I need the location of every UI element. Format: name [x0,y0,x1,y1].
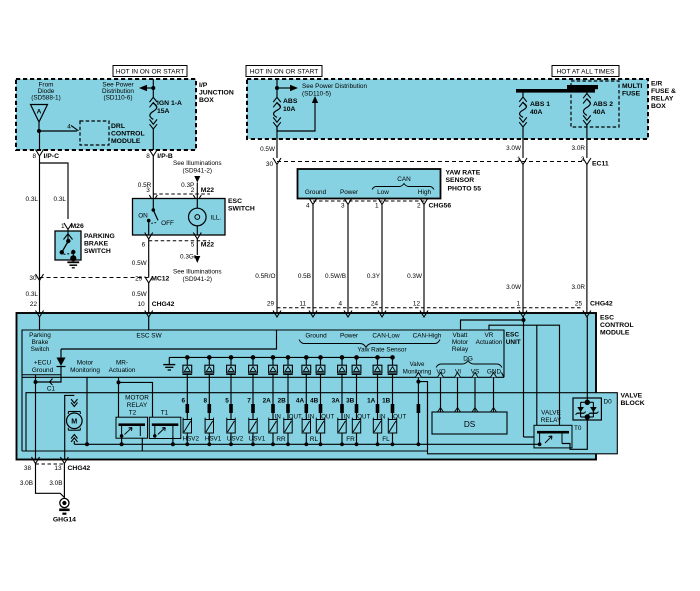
wire I/P-B to ESC switch [152,156,154,199]
relay T1 box [149,417,181,438]
fuse ABS 1 40A [522,93,524,98]
D0 inner loop [581,401,594,403]
svg-text:+ECU: +ECU [34,360,52,367]
svg-text:8: 8 [146,153,150,160]
valve bus junction 8 [207,442,211,446]
module pin 38 [32,457,40,464]
wire valve 4A to bus [305,433,307,444]
wire MR actuation [118,377,120,382]
svg-text:SWITCH: SWITCH [84,248,111,255]
svg-text:HOT IN ON OR START: HOT IN ON OR START [116,68,185,75]
bus bar 2 [567,85,598,89]
valve terminal bar 2A [271,404,275,413]
wire pin29 internal [61,330,277,349]
svg-text:Motor: Motor [77,360,94,367]
svg-text:(SD941-2): (SD941-2) [183,276,212,283]
svg-text:25: 25 [575,301,583,308]
dashed connector line CHG56 [313,200,426,202]
wire node to power dist arrow [277,87,290,89]
svg-text:3.0W: 3.0W [506,145,522,152]
svg-text:I/P: I/P [199,82,208,89]
valve terminal bar 5 [229,404,233,413]
svg-text:DRL: DRL [111,123,125,130]
svg-text:ABS 2: ABS 2 [593,101,613,108]
svg-text:1: 1 [516,301,520,308]
svg-text:CAN-High: CAN-High [413,333,442,340]
svg-text:I/P-C: I/P-C [44,153,60,160]
dashed connector line CHG42 bottom [36,463,65,465]
svg-text:PARKING: PARKING [84,233,115,240]
solenoid valve 2B [284,420,292,434]
svg-text:OUT: OUT [321,414,334,421]
wire valve 2A to bus [272,433,274,444]
svg-text:DG: DG [463,356,473,363]
dashed connector line M22 top [153,193,210,195]
DRL control module (dashed box) [80,121,109,145]
valve relay contact [537,431,569,434]
internal ground symbol [168,357,170,364]
wire ESC pin6 to MC12 [148,239,150,278]
dashed connector line CHG42 top [277,307,583,309]
valve terminal bar 1B [391,404,395,413]
ground GHG14 [60,498,69,507]
svg-text:SENSOR: SENSOR [446,177,475,184]
svg-text:ESC: ESC [506,332,520,339]
svg-text:3A: 3A [332,398,341,405]
DS box [432,412,507,434]
wire T1 coil to bus [172,436,174,444]
svg-text:FL: FL [382,436,390,443]
svg-text:1A: 1A [367,398,376,405]
svg-text:MODULE: MODULE [111,138,141,145]
svg-text:15A: 15A [157,108,170,115]
yaw rate sensor box [298,169,441,199]
relay T1 contact [152,423,179,426]
valve monitoring bus junction [417,442,421,446]
svg-text:BLOCK: BLOCK [621,400,645,407]
valve bus junction 6 [185,442,189,446]
svg-text:See Illuminations: See Illuminations [173,269,222,276]
strip pin notches [415,373,421,378]
svg-text:3.0B: 3.0B [20,480,33,487]
svg-text:0.5W/B: 0.5W/B [325,273,346,280]
svg-text:GHG14: GHG14 [53,517,76,524]
svg-text:CONTROL: CONTROL [111,131,145,138]
svg-text:USV1: USV1 [249,436,266,443]
svg-text:29: 29 [135,276,143,283]
svg-text:A: A [37,109,42,116]
wire valve 3B to bus [356,433,358,444]
svg-text:ABS: ABS [283,98,298,105]
svg-text:Ground: Ground [305,189,327,196]
wire valve column 7 [252,393,254,420]
ESC switch box [133,199,226,236]
valve bus junction 2A [271,442,275,446]
wire Vbatt to strip [461,320,524,330]
svg-text:See Power Distribution: See Power Distribution [302,83,367,90]
svg-text:HSV2: HSV2 [183,436,200,443]
svg-text:IN: IN [379,414,385,421]
valve bus junction 4B [319,442,323,446]
solenoid valve 6 [183,420,191,434]
svg-text:2: 2 [191,187,195,194]
wire valve column 4B [320,393,322,420]
svg-text:OFF: OFF [161,220,174,227]
wire feed from label [152,79,154,88]
wire yaw power to pin 4 [347,205,349,331]
svg-text:2B: 2B [278,398,287,405]
wire Vbatt to valve relay [524,436,535,438]
module pin 13 CHG42 [60,457,68,464]
wire valve 5 to bus [230,433,232,444]
valve bus junction 1B [391,442,395,446]
svg-text:PHOTO 55: PHOTO 55 [448,186,482,193]
connector pin 8 I/P-C [36,150,44,157]
ESC unit outline [22,330,504,451]
svg-text:0.3W: 0.3W [407,273,423,280]
svg-text:Switch: Switch [31,346,50,353]
solenoid valve 8 [205,420,213,434]
node junction (IGN feed) [151,86,155,90]
svg-text:(SD110-6): (SD110-6) [103,95,132,102]
svg-text:USV2: USV2 [227,436,244,443]
solenoid valve 3A [338,420,346,434]
svg-text:HOT AT ALL TIMES: HOT AT ALL TIMES [557,68,616,75]
svg-text:IN: IN [275,414,281,421]
svg-text:Parking: Parking [29,332,51,339]
svg-text:3: 3 [341,203,345,210]
wire valve column 3A [341,393,343,420]
solenoid driver 7 (square-triangle) [305,357,307,365]
valve relay T0 box [534,425,572,448]
svg-text:Ground: Ground [32,367,54,374]
wire valve 6 to bus [186,433,188,444]
valve bus junction 4A [304,442,308,446]
ECU ground label box bottom [22,374,61,376]
svg-text:ESC: ESC [228,198,242,205]
solenoid driver 9 (square-triangle) [341,357,343,365]
svg-text:M26: M26 [71,223,84,230]
driver junction 10 [354,355,359,360]
connector pin 8 I/P-B [149,150,157,157]
svg-text:Vbatt: Vbatt [453,332,468,339]
svg-text:M: M [71,417,77,426]
svg-text:M22: M22 [201,242,214,249]
wire ESC pin5 down [196,239,198,255]
svg-text:CHG42: CHG42 [68,465,91,472]
svg-text:M22: M22 [201,187,214,194]
motor chevrons top [71,399,77,406]
svg-text:CAN-Low: CAN-Low [372,333,400,340]
svg-text:RELAY: RELAY [541,417,562,424]
svg-text:ABS 1: ABS 1 [530,101,550,108]
svg-text:JUNCTION: JUNCTION [199,90,234,97]
valve bus junction 3A [340,442,344,446]
strip yaw brace [299,340,440,348]
wire yaw can-low to pin 24 [381,205,383,331]
svg-text:(SD110-5): (SD110-5) [302,91,331,98]
solenoid driver 5 (square-triangle) [272,357,274,365]
parking brake switch contact [66,239,70,243]
diode pack D0 box [573,398,601,420]
wire feed to ABS node [276,79,278,88]
strip wire pin22 stub [39,317,41,330]
wire valve column 8 [208,393,210,420]
wire diode to C1 node [36,367,62,383]
svg-text:BRAKE: BRAKE [84,241,109,248]
svg-text:7: 7 [247,398,251,405]
svg-text:Actuation: Actuation [109,367,136,374]
bus bar 1 [516,89,595,93]
svg-text:IGN 1-A: IGN 1-A [157,100,182,107]
fuse ABS 2 40A [586,89,588,94]
svg-text:VI: VI [455,369,461,376]
arrow from illuminations [194,176,200,183]
svg-text:3.0R: 3.0R [572,284,586,291]
wire valve column 4A [305,393,307,420]
wire ECU ground stub [35,375,37,382]
solenoid valve 1B [388,420,396,434]
svg-text:FUSE &: FUSE & [651,88,676,95]
valve bus junction 2B [286,442,290,446]
wire monitoring elbow [418,382,427,445]
wire valve 1B to bus [392,433,394,444]
solenoid driver 11 (square-triangle) [377,357,379,365]
svg-text:IN: IN [344,414,350,421]
valve block box [428,393,618,454]
dashed connector line M22 bottom [149,240,210,242]
D0 diode right (zener) [590,407,597,412]
wire illum to ESC pin 2 [196,183,198,199]
wire node to DRL module [39,130,77,132]
svg-text:UNIT: UNIT [506,339,521,346]
node junction (ABS feed) [275,86,279,90]
svg-text:0.5R/O: 0.5R/O [255,273,275,280]
wire valve column 5 [230,393,232,420]
driver junction 5 [271,355,276,360]
solenoid valve 4A [302,420,310,434]
svg-text:6: 6 [182,398,186,405]
D0 bottom node [585,414,590,419]
dashed connector line MC12 [40,277,149,279]
connector C1 [50,379,53,386]
svg-text:29: 29 [267,301,275,308]
node junction (DRL branch) [37,129,41,133]
wire VR actuation route [489,325,560,425]
solenoid driver 4 (square-triangle) [252,357,254,365]
wire MC12-30 to module pin 22 [39,281,41,314]
svg-text:4: 4 [306,203,310,210]
wire valve 3A to bus [341,433,343,444]
svg-text:3.0B: 3.0B [49,480,62,487]
svg-text:Low: Low [377,189,389,196]
wire VI to DS [457,377,459,412]
wire EC11-2 to module pin 25 [586,165,588,314]
ESC switch wire pin3 [152,199,154,211]
svg-text:30: 30 [266,161,274,168]
wire valve column 6 [186,393,188,420]
svg-text:FUSE: FUSE [622,91,641,98]
motor monitor junction [85,442,89,446]
wire valve column 2B [287,393,289,420]
svg-text:OUT: OUT [357,414,370,421]
svg-text:YAW RATE: YAW RATE [446,170,481,177]
valve terminal bar 4A [305,404,309,413]
fuse IGN 1-A 15A [152,88,154,97]
wire 30 to module pin 29 [276,165,278,331]
svg-text:3.0W: 3.0W [506,284,522,291]
svg-text:Ground: Ground [305,333,327,340]
solenoid driver 1 (square-triangle) [186,357,188,365]
svg-text:MODULE: MODULE [600,330,630,337]
svg-text:Relay: Relay [452,346,469,353]
wire GND to DS [493,377,495,412]
svg-text:Monitoring: Monitoring [70,367,100,374]
wire fuse to I/P-B pin [152,128,154,150]
valve bus junction 1A [376,442,380,446]
wire valve 7 to bus [252,433,254,444]
wire ABS2 to box edge [586,124,588,158]
arrow to illuminations lower [194,256,200,263]
svg-text:4: 4 [67,124,71,131]
svg-text:30: 30 [29,275,37,282]
diode (ECU supply) [60,349,62,358]
driver junction 11 [375,355,380,360]
wire VS to DS [474,377,476,412]
svg-text:0.5W: 0.5W [132,291,148,298]
svg-text:IN: IN [308,414,314,421]
wire yaw ground to pin 11 [312,205,314,331]
svg-text:High: High [418,189,432,196]
svg-text:Brake: Brake [32,339,49,346]
wire pin1 Vbatt [523,317,525,437]
svg-text:EC11: EC11 [592,161,609,168]
valve common bus [74,443,539,445]
svg-text:11: 11 [299,301,306,308]
dashed connector line EC11/30 [277,161,583,163]
svg-text:VALVE: VALVE [621,393,643,400]
motor chevrons bottom [71,435,77,442]
svg-text:2: 2 [417,203,421,210]
wire motor monitoring [86,377,88,444]
wire motor feed elbow [65,395,75,451]
svg-text:5: 5 [191,242,195,249]
I/P junction box (fuse box) [16,79,196,150]
solenoid valve 3B [352,420,360,434]
valve terminal bar 7 [251,404,255,413]
driver junction 7 [304,355,309,360]
label HOT IN ON OR START (left) [113,66,187,77]
valve terminal bar 4B [319,404,323,413]
svg-text:3: 3 [146,187,150,194]
svg-text:VO: VO [436,369,445,376]
svg-text:RR: RR [276,436,286,443]
svg-text:DS: DS [464,420,476,429]
svg-text:(SD941-2): (SD941-2) [183,168,212,175]
strip wire pin10 stub [148,317,150,330]
wire VO to DS [440,377,442,412]
wire diode to node [38,122,40,131]
svg-text:Motor: Motor [452,339,469,346]
svg-text:VS: VS [471,369,480,376]
svg-text:Monitoring: Monitoring [403,369,431,376]
svg-text:RELAY: RELAY [651,96,674,103]
wire valve column 1B [392,393,394,420]
svg-text:VR: VR [485,332,494,339]
wire valve 8 to bus [208,433,210,444]
MR actuation junction [117,380,121,384]
wire valve column 1A [377,393,379,420]
E/R fuse and relay box [247,79,648,139]
arrow to power distribution note [139,85,147,91]
valve terminal bar 3B [355,404,359,413]
svg-text:CHG42: CHG42 [590,301,613,308]
svg-text:2A: 2A [263,398,272,405]
svg-text:HSV1: HSV1 [205,436,222,443]
valve bus junction 3B [355,442,359,446]
wire diode node to I/P-C pin [39,131,41,150]
svg-text:SWITCH: SWITCH [228,206,255,213]
svg-text:40A: 40A [530,109,543,116]
valve monitoring terminal bar [417,404,421,413]
wire T2 coil to bus [121,436,123,444]
svg-text:FR: FR [346,436,355,443]
driver junction 9 [340,355,345,360]
driver junction 8 [318,355,323,360]
svg-text:MULTI: MULTI [622,83,642,90]
wire T2 contact down [141,438,143,451]
wire relay to D0 return [562,417,587,449]
node junction ECU ground [34,380,38,384]
svg-text:Power: Power [340,189,359,196]
svg-text:I/P-B: I/P-B [157,153,173,160]
wire valve column 2A [272,393,274,420]
relay T1 coil [154,426,156,436]
svg-text:3.0R: 3.0R [572,145,586,152]
solenoid driver 12 (square-triangle) [392,357,394,365]
svg-text:Power: Power [340,333,359,340]
wire M26 to switch [67,230,69,232]
pump unit box [26,393,428,451]
valve terminal bar 8 [208,404,212,413]
svg-text:MR-: MR- [116,360,128,367]
svg-text:OUT: OUT [393,414,406,421]
svg-text:Actuation: Actuation [476,339,503,346]
wire MR to T1 [119,382,153,417]
svg-text:1B: 1B [382,398,391,405]
wire branch to parking brake switch [40,163,69,219]
svg-text:MOTOR: MOTOR [125,395,149,402]
valve terminal bar 2B [286,404,290,413]
wire fuse bottom branch [277,103,315,131]
svg-text:5: 5 [225,398,229,405]
ESC switch lamp wires [196,199,198,209]
valve monitoring junction [416,380,420,384]
svg-text:38: 38 [24,465,32,472]
fuse ABS 10A [276,88,278,97]
wire ABS1 to box edge [522,126,524,158]
svg-text:8: 8 [32,153,36,160]
svg-text:CAN: CAN [397,176,411,183]
wire pin13 to ground [63,464,65,500]
solenoid valve 5 [227,420,235,434]
solenoid valve 7 [249,420,257,434]
svg-text:ILL.: ILL. [211,215,222,222]
wire pin38 to ground join [36,464,65,498]
driver junction 4 [251,355,256,360]
svg-text:4B: 4B [310,398,319,405]
svg-text:E/R: E/R [651,81,662,88]
